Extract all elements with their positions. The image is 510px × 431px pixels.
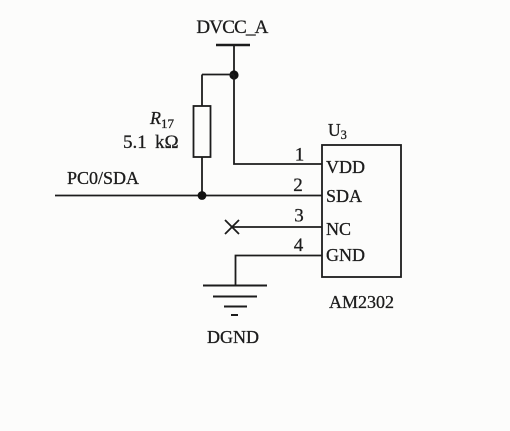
svg-text:4: 4 — [294, 235, 304, 256]
wire: junction left to resistor branch — [202, 74, 234, 76]
ground symbol — [203, 286, 267, 316]
svg-text:SDA: SDA — [326, 186, 362, 206]
svg-text:3: 3 — [294, 206, 304, 227]
wire: PC0/SDA horizontal line to pin 2 — [55, 195, 322, 197]
svg-text:NC: NC — [326, 219, 351, 239]
wire: power bar down to junction — [233, 45, 235, 75]
svg-text:2: 2 — [293, 175, 303, 196]
junction dot at power node — [229, 70, 238, 79]
junction dot on SDA line — [198, 191, 207, 200]
svg-text:AM2302: AM2302 — [329, 292, 394, 312]
svg-text:DGND: DGND — [207, 327, 259, 347]
svg-text:PC0/SDA: PC0/SDA — [67, 168, 139, 188]
wire: down to resistor top — [201, 75, 203, 107]
no-connect X on pin 3 — [225, 220, 239, 234]
pin 4 wire to ground branch — [236, 256, 323, 286]
svg-text:GND: GND — [326, 245, 365, 265]
svg-text:VDD: VDD — [326, 157, 365, 177]
power rail bar — [216, 44, 250, 46]
IC U3 box — [322, 145, 401, 277]
resistor R17 body — [194, 106, 211, 157]
wire: resistor bottom to SDA line — [201, 157, 203, 196]
pin 3 wire — [232, 226, 322, 228]
svg-text:1: 1 — [295, 145, 305, 166]
svg-text:DVCC_A: DVCC_A — [196, 17, 268, 38]
wire: power branch down and right to pin 1 — [234, 75, 322, 164]
